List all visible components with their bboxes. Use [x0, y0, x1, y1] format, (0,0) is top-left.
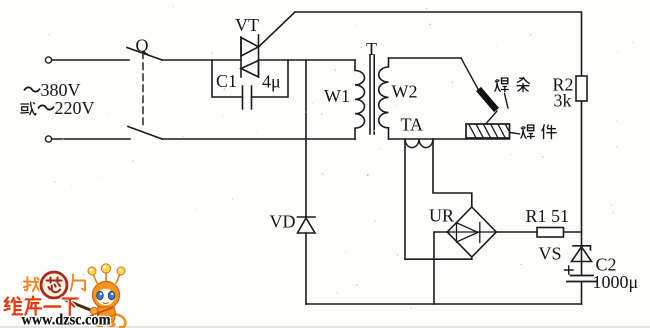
wire TA left down [404, 139, 406, 259]
wire bottom input [52, 138, 130, 140]
wire W2 bottom / welding loop [389, 138, 510, 140]
wire VS to C2 [581, 246, 583, 275]
svg-text:W1: W1 [324, 86, 350, 106]
logo char wei [4, 297, 22, 314]
wire electrode holder diagonal [461, 58, 479, 90]
wire bridge bottom vertex [471, 257, 473, 259]
logo mascot feet [96, 322, 104, 327]
switch Q top blade [127, 48, 162, 61]
logo mascot antenna stalks [93, 272, 121, 283]
terminal bottom input [45, 136, 51, 142]
label 焊条 [495, 77, 530, 92]
wire lower (switch to W1 bottom) [162, 138, 355, 140]
bridge rectifier UR [447, 207, 496, 257]
label 或 [20, 102, 36, 116]
svg-text:380V: 380V [41, 80, 81, 100]
resistor R1 [537, 228, 564, 238]
page bottom edge scan line [0, 326, 650, 328]
logo char zhao (find) [24, 277, 40, 291]
switch Q mechanical link (dashed) [142, 52, 144, 126]
resistor R2 [576, 76, 587, 101]
wire main upper (switch to VT) [162, 59, 241, 61]
workpiece 焊件 hatched box [466, 124, 510, 138]
transformer W2 winding [379, 58, 389, 139]
svg-text:UR: UR [429, 206, 454, 226]
svg-text:C1: C1 [216, 71, 237, 91]
logo char yi (one) [45, 304, 60, 309]
pointer to workpiece label [510, 133, 520, 135]
logo mascot head [93, 282, 120, 309]
current transformer TA [405, 139, 433, 148]
svg-text:VT: VT [235, 15, 259, 35]
label ~220V [38, 105, 54, 109]
logo mascot antenna balls [88, 264, 125, 275]
logo mascot face [97, 289, 115, 306]
welding electrode bar [479, 89, 497, 110]
switch Q bottom blade [128, 127, 162, 140]
triac VT [241, 35, 259, 77]
wire VT gate diagonal [260, 12, 296, 46]
logo char pian (piece) [71, 275, 85, 291]
wire top input [52, 59, 129, 61]
svg-text:Q: Q [136, 36, 149, 56]
wire main (VT to transformer W1) [259, 59, 356, 61]
svg-text:R1 51: R1 51 [526, 206, 570, 226]
svg-text:VS: VS [539, 244, 562, 264]
wire right rail (R2 to VS) [581, 101, 583, 246]
logo mascot pen dark [68, 301, 98, 313]
wire bottom rail [306, 303, 582, 305]
wire C2 to bottom rail [581, 282, 583, 304]
svg-text:T: T [366, 39, 377, 59]
watermark logo dzsc [4, 264, 125, 328]
logo mascot belt [99, 315, 114, 317]
svg-text:220V: 220V [55, 98, 95, 118]
svg-text:www.dzsc.com: www.dzsc.com [22, 312, 112, 328]
wire electrode tip [486, 111, 497, 124]
logo mascot pen red [87, 308, 112, 317]
transformer core [370, 55, 374, 134]
zener diode VS [572, 246, 592, 262]
capacitor C2 [567, 276, 597, 282]
svg-text:VD: VD [270, 212, 296, 232]
wire W2 top edge [389, 57, 462, 59]
label 焊件 [521, 124, 557, 139]
logo mascot tail [114, 314, 125, 327]
pointer to electrode [505, 94, 509, 109]
diode VD [298, 217, 316, 233]
svg-text:1000μ: 1000μ [593, 272, 639, 292]
wire top rail [295, 12, 582, 76]
capacitor C2 polarity plus [565, 266, 574, 274]
wire bridge left output [434, 232, 447, 304]
logo magnifier circle [41, 272, 67, 298]
logo mascot hand [90, 307, 97, 314]
svg-text:3k: 3k [554, 91, 572, 111]
label ~380V [24, 87, 40, 91]
svg-text:TA: TA [401, 115, 424, 135]
capacitor C1 branch [212, 60, 288, 109]
wire bridge right output [496, 231, 537, 233]
svg-text:W2: W2 [392, 82, 418, 102]
logo mascot mouth [103, 303, 109, 304]
wire bridge AC bottom [405, 258, 472, 260]
wire R1 to right rail [564, 231, 582, 233]
logo char ku [25, 297, 41, 316]
logo char xin in circle [47, 278, 62, 293]
terminal top input [45, 57, 51, 63]
transformer W1 winding [355, 60, 365, 139]
wire VD branch lower [305, 233, 307, 304]
wire TA right to bridge top [433, 139, 472, 207]
logo mascot body [97, 307, 115, 323]
svg-text:4μ: 4μ [262, 72, 281, 92]
logo char xia (down) [63, 299, 78, 316]
wire VD branch upper [305, 60, 307, 217]
logo mascot eyes [97, 291, 104, 300]
